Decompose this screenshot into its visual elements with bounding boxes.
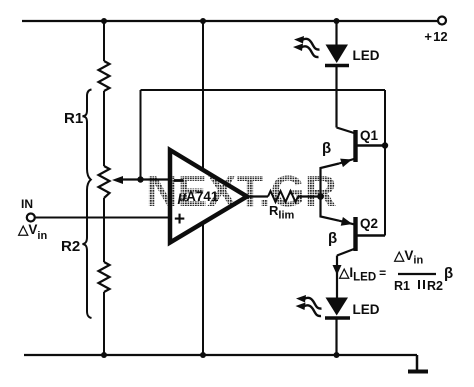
wire: Q1 collector to LED1 [335, 67, 337, 128]
LED1 [335, 21, 337, 45]
svg-text:β: β [328, 230, 337, 247]
wire: down to Q2 emitter [321, 197, 340, 221]
node: rail / LED1 anode [334, 18, 340, 24]
wire: R2 bottom lead [103, 292, 105, 355]
svg-text:LED: LED [353, 48, 380, 63]
svg-text:R2: R2 [61, 238, 80, 255]
svg-text:R1: R1 [394, 279, 410, 293]
wire: base bus down [384, 90, 386, 236]
potentiometer element [99, 166, 110, 198]
wire: top +12 rail [22, 20, 438, 22]
wire: op-amp V+ pin [202, 21, 204, 170]
transistor Q1 [339, 159, 356, 164]
light arrows LED1 [294, 36, 320, 50]
wire: feedback top run [141, 89, 386, 91]
svg-text:R2: R2 [427, 279, 443, 293]
svg-text:μA741: μA741 [177, 189, 219, 204]
wire: up to Q1 emitter [321, 164, 340, 197]
resistor R1 [99, 61, 110, 91]
brace R1+R2 [83, 90, 92, 319]
wire: Rlim to emitter node [298, 195, 321, 197]
potentiometer wiper arrow [112, 176, 123, 184]
op-amp U1 uA741 [170, 150, 247, 243]
node: rail / divider top [101, 18, 107, 24]
svg-text:+ 12: + 12 [424, 29, 447, 44]
node: rail / LED2 cathode [334, 352, 340, 358]
node: Q1 base junction [382, 142, 388, 148]
label - input [174, 179, 184, 182]
light arrows LED2 [296, 295, 322, 309]
wire: wiper to op-amp inverting input [120, 178, 169, 180]
svg-text:+: + [174, 209, 185, 230]
wire: R1 top lead [103, 21, 105, 61]
terminal +12 [438, 17, 446, 25]
node: rail / op-amp V+ [200, 18, 206, 24]
wire: op-amp output [247, 195, 268, 197]
terminal IN [27, 214, 35, 222]
resistor R2 [99, 262, 110, 292]
wire: R1 to pot [103, 91, 105, 166]
wire: pot to R2 [103, 198, 105, 262]
wire: op-amp V- pin [202, 224, 204, 355]
node: emitter junction [317, 193, 324, 200]
node: wiper junction [137, 176, 143, 182]
node: rail / op-amp V- [200, 352, 206, 358]
formula fraction bar [398, 273, 436, 275]
wire: input to op-amp + [35, 217, 169, 219]
wire: feedback riser [140, 90, 142, 180]
LED2 [326, 298, 349, 316]
svg-text:LED: LED [353, 302, 380, 317]
svg-text:Q2: Q2 [360, 216, 378, 231]
svg-text:R1: R1 [64, 110, 83, 127]
ground [416, 355, 419, 371]
transistor Q2 [339, 221, 356, 225]
resistor Rlim [268, 191, 298, 202]
svg-text:β: β [322, 140, 331, 157]
svg-text:Q1: Q1 [360, 128, 379, 143]
wire: Q2 collector to LED2 [336, 256, 338, 298]
node: rail / R2 [101, 352, 107, 358]
current arrow delta-I [333, 265, 342, 275]
wire: bottom ground rail [24, 354, 417, 356]
svg-text:IN: IN [21, 197, 33, 211]
svg-text:β: β [444, 265, 453, 282]
